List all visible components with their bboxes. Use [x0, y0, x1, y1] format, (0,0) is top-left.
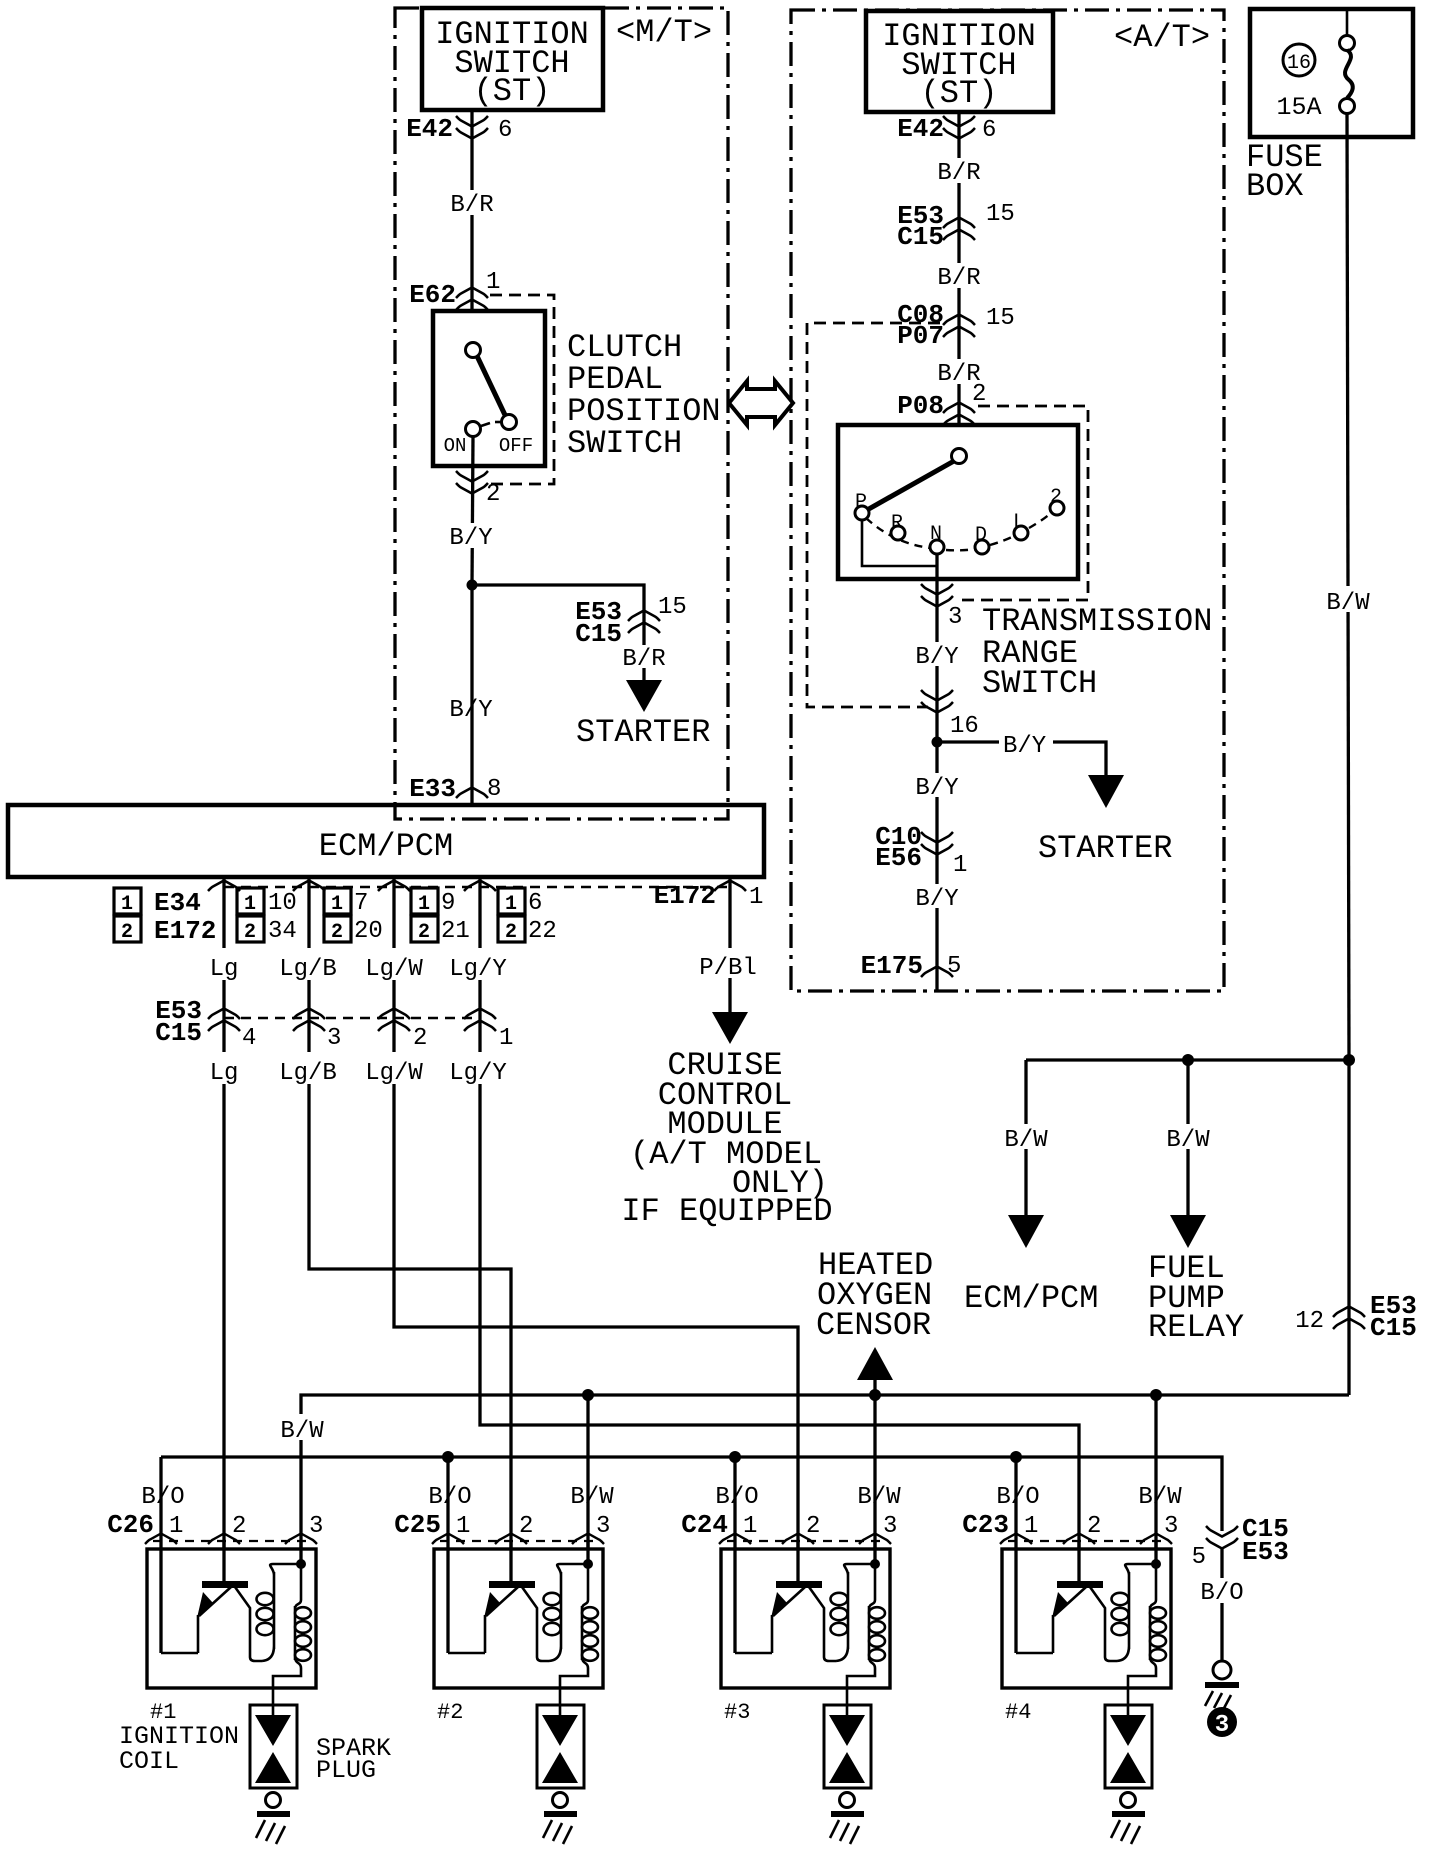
svg-text:STARTER: STARTER — [576, 714, 710, 751]
wire: B/O bus (coil grounds feed) — [161, 1457, 1222, 1531]
svg-text:Lg: Lg — [210, 956, 239, 983]
wire: right rail down to B/W bus — [1347, 1060, 1350, 1395]
range switch common contact — [952, 449, 967, 464]
connector E53/C15 dashed link — [224, 1017, 480, 1019]
connector P08 pin 2 — [943, 403, 975, 426]
wire label B/R (A/T 1) — [935, 158, 983, 187]
svg-text:(ST): (ST) — [474, 73, 551, 110]
pin numbers column 2 (7/20) — [324, 888, 383, 945]
wire: B/O ground branch — [1220, 1549, 1223, 1661]
range switch contact 2 — [1050, 501, 1064, 515]
wire label B/R (A/T 3) — [935, 359, 983, 388]
svg-text:2: 2 — [1050, 486, 1062, 509]
junction node (fuel pump branch) — [1182, 1054, 1194, 1066]
svg-text:ON: ON — [444, 435, 467, 457]
arrow to ECM/PCM — [1008, 1215, 1044, 1248]
svg-text:ECM/PCM: ECM/PCM — [964, 1280, 1098, 1317]
wire: range switch to junction — [935, 606, 938, 742]
svg-text:B/R: B/R — [622, 646, 665, 673]
svg-text:IF EQUIPPED: IF EQUIPPED — [621, 1193, 832, 1230]
svg-text:#4: #4 — [1005, 1700, 1031, 1725]
wire: drop to ECM/PCM arrow — [1024, 1060, 1027, 1215]
svg-text:Lg/W: Lg/W — [365, 1060, 423, 1087]
wire: B/W drop to coil 4 pin 3 — [1154, 1395, 1157, 1550]
wire: ECM pin (Lg/Y) column 4 — [480, 877, 1079, 1550]
svg-text:B/W: B/W — [1326, 590, 1370, 617]
svg-text:B/Y: B/Y — [915, 886, 958, 913]
pin numbers column 1 (10/34) — [237, 888, 297, 945]
svg-text:B/O: B/O — [1200, 1580, 1243, 1607]
wire: horizontal distribution at y=1060 — [1026, 1058, 1349, 1061]
svg-text:C15: C15 — [1370, 1313, 1417, 1343]
svg-text:1: 1 — [121, 893, 133, 916]
svg-text:C24: C24 — [681, 1510, 728, 1540]
connector E33 pin 8 — [456, 788, 488, 799]
junction node B/O to coil 3 — [729, 1451, 741, 1463]
svg-text:B/R: B/R — [450, 192, 493, 219]
svg-text:E62: E62 — [409, 280, 456, 310]
svg-text:1: 1 — [486, 269, 500, 296]
svg-text:15: 15 — [986, 305, 1015, 332]
svg-text:E33: E33 — [409, 774, 456, 804]
svg-text:E42: E42 — [406, 114, 453, 144]
transmission range switch inner dashed boundary — [960, 406, 1088, 600]
svg-text:3: 3 — [1215, 1712, 1229, 1739]
svg-text:B/Y: B/Y — [449, 525, 492, 552]
svg-text:C25: C25 — [394, 1510, 441, 1540]
ignition coil #4 assembly (C23) with spark plug — [996, 1457, 1178, 1844]
wire: ignition switch M/T to clutch switch — [470, 110, 473, 343]
wire label B/Y (A/T 2) — [913, 773, 961, 802]
wire: branch to starter (A/T) with inline B/Y label — [937, 742, 1106, 775]
svg-text:#3: #3 — [724, 1700, 750, 1725]
clutch pedal position switch box — [433, 311, 545, 466]
svg-text:Lg: Lg — [210, 1060, 239, 1087]
svg-text:2: 2 — [413, 1025, 427, 1052]
label SPARK PLUG — [316, 1734, 391, 1785]
svg-text:N: N — [930, 523, 942, 546]
wire: P contact to output — [862, 520, 937, 566]
clutch switch blade — [477, 356, 505, 415]
label CRUISE CONTROL MODULE — [621, 1047, 832, 1230]
svg-text:RELAY: RELAY — [1148, 1309, 1244, 1346]
fuse box — [1250, 9, 1413, 137]
connector E42 pin 6 (A/T) — [943, 116, 975, 139]
svg-text:<M/T>: <M/T> — [616, 14, 712, 51]
wire: ECM pin E172 column — [728, 877, 731, 1012]
svg-text:SWITCH: SWITCH — [982, 665, 1097, 702]
wire: clutch switch down to junction — [472, 437, 473, 585]
svg-text:E56: E56 — [875, 843, 922, 873]
svg-text:21: 21 — [441, 918, 470, 945]
svg-text:C26: C26 — [107, 1510, 154, 1540]
svg-text:B/Y: B/Y — [915, 775, 958, 802]
svg-text:Lg/Y: Lg/Y — [449, 1060, 507, 1087]
wire label B/Y — [447, 523, 495, 552]
fuse 16, 15A — [1340, 11, 1355, 114]
svg-text:2: 2 — [486, 481, 500, 508]
junction node B/O to coil 4 — [1010, 1451, 1022, 1463]
wire label B/Y (A/T 3) — [913, 884, 961, 913]
ignition coil #2 assembly (C25) with spark plug — [428, 1457, 610, 1844]
range switch contact N — [930, 540, 944, 554]
clutch switch common contact — [466, 343, 481, 358]
svg-text:COIL: COIL — [119, 1747, 179, 1776]
connector E53/C15 pin 12 — [1333, 1307, 1365, 1330]
connector C15/E53 pin 5 — [1206, 1526, 1238, 1549]
svg-text:R: R — [891, 512, 903, 535]
svg-text:16: 16 — [950, 713, 979, 740]
svg-text:E175: E175 — [861, 951, 923, 981]
connector C10/E56 pin 1 — [921, 832, 953, 855]
svg-text:B/R: B/R — [937, 265, 980, 292]
wire: B/W drop to coil 2 pin 3 — [586, 1395, 589, 1550]
junction node B/O to coil 2 — [442, 1451, 454, 1463]
connector pin 2 below clutch switch — [456, 471, 488, 494]
wire label B/W (fuel pump drop) — [1164, 1124, 1212, 1154]
svg-text:3: 3 — [327, 1025, 341, 1052]
wire label P/Bl — [699, 948, 758, 982]
wire: B/W bus (fuse to coils) — [301, 1395, 1349, 1550]
connector E53/C15 pin 15 (A/T) — [943, 218, 975, 241]
svg-text:(ST): (ST) — [921, 75, 998, 112]
svg-text:CENSOR: CENSOR — [816, 1307, 931, 1344]
svg-text:C23: C23 — [962, 1510, 1009, 1540]
svg-text:C15: C15 — [575, 619, 622, 649]
range switch contact arc (dashed) — [866, 513, 1051, 550]
svg-text:E172: E172 — [154, 916, 216, 946]
svg-text:B/Y: B/Y — [915, 644, 958, 671]
svg-text:C15: C15 — [155, 1018, 202, 1048]
pin numbers column 3 (9/21) — [411, 888, 470, 945]
svg-text:B/W: B/W — [857, 1484, 901, 1511]
svg-text:BOX: BOX — [1246, 168, 1304, 205]
svg-text:E53: E53 — [1242, 1537, 1289, 1567]
label FUSE BOX — [1246, 139, 1323, 205]
arrow to fuel pump relay — [1170, 1215, 1206, 1248]
svg-text:2: 2 — [331, 921, 343, 944]
svg-text:B/W: B/W — [280, 1418, 324, 1445]
svg-text:B/R: B/R — [937, 160, 980, 187]
svg-text:ECM/PCM: ECM/PCM — [319, 828, 453, 865]
junction node B/W to coil 4 — [1150, 1389, 1162, 1401]
wire: branch to starter (M/T) — [472, 585, 644, 680]
svg-text:22: 22 — [528, 918, 557, 945]
svg-text:1: 1 — [418, 893, 430, 916]
svg-text:1: 1 — [331, 893, 343, 916]
svg-text:D: D — [975, 524, 987, 547]
svg-text:B/W: B/W — [1166, 1127, 1210, 1154]
svg-text:8: 8 — [487, 776, 501, 803]
wire label B/R (A/T 2) — [935, 263, 983, 292]
svg-text:OFF: OFF — [499, 435, 533, 457]
junction node (A/T starter branch) — [932, 737, 943, 748]
ignition switch (ST) box, M/T — [422, 8, 603, 110]
connector E175 pin 5 — [921, 967, 953, 978]
ground terminal circle — [1213, 1661, 1231, 1679]
arrow to cruise control module — [712, 1012, 748, 1044]
wire label B/W (ECM drop) — [1002, 1124, 1050, 1154]
svg-text:B/W: B/W — [1004, 1127, 1048, 1154]
range switch contact P — [855, 506, 869, 520]
svg-text:1: 1 — [953, 852, 967, 879]
connector E42 pin 6 (M/T) — [456, 116, 488, 139]
svg-text:Lg/W: Lg/W — [365, 956, 423, 983]
wire: ECM pin (Lg/B) column 2 — [309, 877, 511, 1550]
svg-text:Lg/B: Lg/B — [279, 956, 337, 983]
junction node — [467, 580, 478, 591]
ECM connector dashed link — [224, 886, 730, 888]
ECM/PCM box — [8, 805, 764, 877]
wire label B/O (ground branch) — [1198, 1578, 1246, 1607]
svg-text:15: 15 — [986, 201, 1015, 228]
svg-text:1: 1 — [749, 884, 763, 911]
range switch contact L — [1014, 526, 1028, 540]
legend connector 1 = E34 — [114, 888, 201, 918]
wire: fuse box down right side — [1347, 113, 1349, 1060]
label TRANSMISSION RANGE SWITCH — [982, 603, 1212, 702]
label HEATED OXYGEN CENSOR — [816, 1247, 933, 1344]
svg-text:Lg/B: Lg/B — [279, 1060, 337, 1087]
svg-text:3: 3 — [948, 604, 962, 631]
wire: drop to fuel pump relay arrow — [1186, 1060, 1189, 1215]
svg-text:15A: 15A — [1276, 93, 1321, 122]
label #1 IGNITION COIL — [119, 1700, 239, 1776]
svg-text:B/Y: B/Y — [1003, 733, 1046, 760]
connector E62 pin 1 — [456, 288, 488, 311]
ignition coil #1 assembly (C26) with spark plug — [141, 1457, 323, 1844]
svg-text:5: 5 — [947, 953, 961, 980]
connector pin 3 (range switch) — [921, 584, 953, 607]
ground reference 3 (circled) — [1207, 1707, 1237, 1739]
fuse number 16 (circled) — [1283, 44, 1315, 76]
label FUEL PUMP RELAY — [1148, 1250, 1244, 1346]
svg-text:16: 16 — [1287, 52, 1311, 75]
svg-text:1: 1 — [244, 893, 256, 916]
junction node (right rail top) — [1343, 1054, 1355, 1066]
svg-text:B/W: B/W — [1138, 1484, 1182, 1511]
ignition switch (ST) box, A/T — [866, 11, 1053, 112]
svg-text:4: 4 — [242, 1025, 256, 1052]
ignition coil #3 assembly (C24) with spark plug — [715, 1457, 897, 1844]
svg-text:2: 2 — [972, 381, 986, 408]
svg-text:2: 2 — [244, 921, 256, 944]
svg-text:PLUG: PLUG — [316, 1756, 376, 1785]
arrow to starter (A/T) — [1088, 775, 1124, 808]
svg-text:20: 20 — [354, 918, 383, 945]
svg-text:B/W: B/W — [570, 1484, 614, 1511]
wire label B/Y (lower) — [447, 695, 495, 724]
ECM output connectors (E34/E172) — [208, 881, 746, 892]
junction node B/W to coil 3 / oxygen sensor — [869, 1389, 881, 1401]
svg-text:STARTER: STARTER — [1038, 830, 1172, 867]
connector C08/P07 pin 15 — [943, 315, 975, 338]
svg-text:5: 5 — [1192, 1544, 1206, 1571]
svg-text:6: 6 — [982, 117, 996, 144]
svg-text:12: 12 — [1295, 1308, 1324, 1335]
wire labels Lg row 2 — [206, 1052, 510, 1087]
svg-text:P08: P08 — [897, 391, 944, 421]
wire: B/W drop to coil 3 pin 3 — [873, 1395, 876, 1550]
ground symbol — [1205, 1682, 1239, 1710]
transmission range switch box — [838, 425, 1078, 579]
pin numbers column 4 (6/22) — [498, 888, 557, 945]
svg-text:E34: E34 — [154, 888, 201, 918]
svg-text:SWITCH: SWITCH — [567, 425, 682, 462]
svg-text:6: 6 — [498, 117, 512, 144]
wire label B/Y (A/T 1) — [913, 642, 961, 671]
svg-text:2: 2 — [418, 921, 430, 944]
wire: riser to heated oxygen sensor — [873, 1378, 876, 1395]
svg-text:2: 2 — [505, 921, 517, 944]
range switch contact D — [975, 540, 989, 554]
svg-text:9: 9 — [441, 890, 455, 917]
junction node B/W to coil 2 — [582, 1389, 594, 1401]
wire label B/W (coil bus) — [278, 1414, 326, 1445]
svg-text:6: 6 — [528, 890, 542, 917]
wire: junction down to ECM/PCM — [470, 585, 473, 805]
range switch contact R — [891, 526, 905, 540]
clutch switch OFF contact — [502, 415, 517, 430]
svg-text:Lg/Y: Lg/Y — [449, 956, 507, 983]
svg-text:1: 1 — [499, 1025, 513, 1052]
M/T section dash-dot boundary — [395, 8, 728, 819]
svg-text:1: 1 — [505, 893, 517, 916]
svg-text:10: 10 — [268, 890, 297, 917]
connector E53/C15 pin 15 (M/T starter branch) — [628, 611, 660, 634]
transmission range switch outer dashed boundary — [807, 323, 940, 707]
range switch blade — [867, 461, 954, 510]
connector pin 16 — [921, 690, 953, 713]
A/T section dash-dot boundary — [791, 10, 1224, 991]
wire: ECM pin (Lg/W) column 3 — [394, 877, 798, 1550]
svg-text:15: 15 — [658, 594, 687, 621]
label CLUTCH PEDAL POSITION SWITCH — [567, 329, 721, 462]
svg-text:C15: C15 — [897, 222, 944, 252]
arrow to heated oxygen sensor — [857, 1347, 893, 1380]
clutch pedal position switch dashed boundary — [490, 295, 554, 484]
wire: ECM pin (Lg) column 1 — [222, 877, 225, 1550]
svg-text:2: 2 — [121, 921, 133, 944]
wire label B/W (fuse wire) — [1323, 586, 1373, 617]
connector E53/C15 (harness, pins 4/3/2/1) — [208, 1009, 496, 1032]
svg-text:E172: E172 — [654, 881, 716, 911]
wire: junction down to E175 — [935, 742, 938, 991]
wire: N contact down to connector 3 — [935, 554, 938, 606]
svg-text:#2: #2 — [437, 1700, 463, 1725]
double-headed arrow between M/T and A/T — [729, 381, 793, 425]
svg-text:E42: E42 — [897, 114, 944, 144]
svg-text:L: L — [1013, 511, 1025, 534]
svg-text:34: 34 — [268, 918, 297, 945]
wire labels Lg row 1 — [206, 948, 510, 983]
svg-text:P/Bl: P/Bl — [699, 955, 757, 982]
clutch switch ON contact — [466, 422, 481, 437]
legend connector 2 = E172 — [114, 916, 216, 946]
svg-text:P07: P07 — [897, 321, 944, 351]
svg-text:P: P — [855, 491, 867, 514]
svg-text:<A/T>: <A/T> — [1114, 19, 1210, 56]
arrow to starter (M/T) — [626, 680, 662, 712]
wire label B/R (M/T) — [448, 190, 496, 219]
svg-text:7: 7 — [354, 890, 368, 917]
wire: ignition switch A/T down to range switch — [957, 112, 960, 449]
